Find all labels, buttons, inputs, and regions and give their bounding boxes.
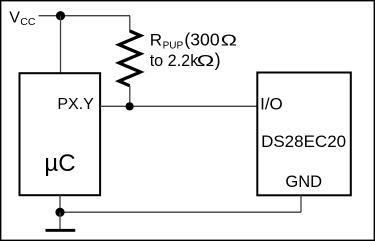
svg-text:R: R	[150, 31, 162, 50]
wire uC bottom to ground node	[59, 195, 61, 212]
svg-text:GND: GND	[285, 173, 322, 191]
wire DS28EC20 GND pin down to ground bus	[300, 195, 302, 212]
wire VCC label to node A	[39, 15, 61, 17]
svg-text:PUP: PUP	[163, 41, 184, 52]
ground symbol	[46, 212, 76, 232]
microcontroller block uC	[20, 73, 101, 195]
svg-text:V: V	[9, 10, 20, 27]
IC U1 DS28EC20 block	[257, 73, 351, 196]
wire node A down to microcontroller top	[60, 16, 62, 73]
junction node: ground	[55, 208, 64, 217]
svg-text:(300: (300	[184, 30, 219, 50]
svg-text:to 2.2k: to 2.2k	[150, 52, 200, 70]
svg-text:Ω: Ω	[221, 32, 237, 50]
svg-text:DS28EC20: DS28EC20	[261, 132, 346, 151]
wire corner down to resistor R_PUP top lead	[129, 16, 131, 32]
value label R_PUP (300 ohm to 2.2k ohm)	[150, 30, 237, 71]
svg-text:Ω: Ω	[197, 53, 215, 70]
resistor R_PUP (zigzag body)	[119, 31, 141, 86]
svg-text:µC: µC	[44, 150, 75, 177]
junction node A (VCC rail)	[56, 11, 65, 20]
svg-text:I/O: I/O	[260, 94, 283, 113]
wire node A to resistor top corner	[61, 15, 131, 17]
svg-text:): )	[215, 50, 221, 70]
svg-text:CC: CC	[20, 16, 36, 28]
power net label VCC	[9, 10, 36, 28]
svg-text:PX.Y: PX.Y	[57, 96, 94, 113]
wire resistor R_PUP bottom lead to node B	[129, 86, 131, 107]
wire 1-Wire net: PX.Y to I/O	[100, 105, 257, 107]
wire ground bus (node to DS28EC20 GND)	[60, 211, 301, 213]
junction node B (1-Wire data line)	[126, 102, 134, 110]
